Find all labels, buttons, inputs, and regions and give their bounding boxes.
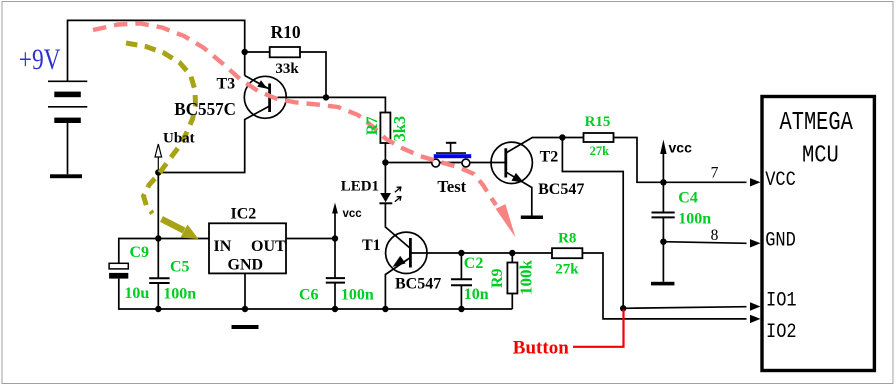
svg-text:C4: C4 — [678, 189, 698, 206]
junction C6 bottom rail — [332, 306, 338, 312]
svg-text:T2: T2 — [540, 149, 559, 166]
junction T1 base / C2 — [458, 250, 464, 256]
wire ground rail — [158, 308, 512, 310]
svg-text:IO1: IO1 — [766, 288, 797, 312]
label R8 — [558, 231, 576, 247]
node Ubat junction — [155, 169, 161, 175]
svg-text:vcc: vcc — [669, 139, 693, 155]
svg-text:3k3: 3k3 — [390, 116, 409, 142]
IC2 regulator box — [209, 223, 286, 273]
svg-text:BC547: BC547 — [395, 276, 441, 293]
junction IC2 GND rail — [242, 306, 248, 312]
svg-text:IC2: IC2 — [231, 206, 257, 223]
capacitor C2 — [451, 279, 472, 285]
svg-text:33k: 33k — [275, 61, 299, 77]
wire C4 ground stub — [662, 242, 664, 282]
wire LED1 anode lead — [384, 163, 386, 194]
wire T2 collector riser to IO1 — [562, 138, 746, 309]
label BC547 T1 — [395, 276, 441, 293]
wire vcc arrow stem at IC2 — [334, 207, 336, 239]
wire battery top to T3 emitter riser — [68, 20, 245, 81]
wire C9 bottom corner — [119, 279, 159, 309]
resistor R15 — [584, 133, 614, 142]
label 10u — [124, 285, 149, 302]
svg-text:BC557C: BC557C — [174, 99, 236, 120]
label T1 — [362, 237, 381, 254]
svg-text:R15: R15 — [585, 114, 611, 130]
wire T2 emitter — [506, 172, 532, 216]
label 27k R15 — [590, 144, 610, 158]
label IN — [214, 238, 232, 255]
junction C2 bottom rail — [458, 306, 464, 312]
label pin 8 — [711, 227, 719, 244]
label 10n — [464, 286, 489, 303]
LED1 light arrows — [395, 187, 401, 202]
MCU pin arrow GND — [750, 239, 761, 247]
label BC547 T2 — [538, 181, 584, 198]
wire R9 top lead — [511, 253, 513, 263]
label BC557C — [174, 99, 236, 120]
label C9 — [130, 244, 150, 261]
resistor R7 — [380, 113, 390, 144]
wire C4 top lead — [662, 182, 664, 212]
label vcc at C4 — [669, 139, 693, 155]
junction C5 bottom rail — [155, 306, 161, 312]
svg-text:8: 8 — [711, 227, 719, 244]
label 100n C6 — [341, 286, 374, 303]
capacitor C5 — [149, 278, 169, 283]
label T3 — [217, 75, 236, 92]
svg-text:C5: C5 — [170, 259, 190, 276]
wire T3 emitter diagonal — [245, 76, 270, 90]
svg-text:100n: 100n — [163, 286, 196, 303]
svg-text:ATMEGA: ATMEGA — [780, 108, 853, 137]
svg-text:R8: R8 — [558, 231, 576, 247]
LED1 diode — [379, 193, 392, 203]
label 3k3 rotated — [390, 116, 409, 142]
label LED1 — [341, 178, 379, 194]
wire T3 collector to Ubat node — [158, 106, 269, 173]
label R7 rotated — [364, 116, 381, 135]
MCU pin arrow IO2 — [750, 315, 761, 323]
label Button — [513, 337, 569, 358]
label R15 — [585, 114, 611, 130]
svg-text:T1: T1 — [362, 237, 381, 254]
svg-text:+9V: +9V — [19, 42, 61, 75]
wire IC2 IN — [158, 238, 209, 240]
label +9V — [19, 42, 61, 75]
junction T2 collector / R15 — [559, 134, 565, 140]
capacitor C4 — [652, 213, 675, 218]
dashed highlight pink arrow — [93, 24, 516, 238]
label 33k — [275, 61, 299, 77]
label IC2 — [231, 206, 257, 223]
resistor R8 — [552, 248, 582, 258]
svg-text:C2: C2 — [464, 255, 484, 272]
label vcc at IC2 — [343, 208, 363, 220]
label 100n C4 — [678, 211, 711, 228]
ground T2 — [521, 216, 543, 220]
junction R10 left / T3 emitter — [242, 49, 248, 55]
svg-text:Button: Button — [513, 337, 569, 358]
svg-text:OUT: OUT — [251, 238, 286, 255]
svg-text:BC547: BC547 — [538, 181, 584, 198]
capacitor C6 — [326, 278, 345, 283]
resistor R9 — [507, 263, 517, 294]
label Ubat — [163, 130, 195, 146]
svg-text:GND: GND — [765, 228, 796, 252]
wire C6 top lead — [334, 239, 336, 279]
junction T1 emitter rail — [382, 306, 388, 312]
label VCC pin — [765, 167, 796, 191]
node VCC junction IC2 OUT / C6 — [332, 235, 338, 241]
wire C2 bottom lead — [460, 285, 462, 309]
svg-text:100n: 100n — [341, 286, 374, 303]
wire Ubat node down to IN node — [157, 173, 159, 239]
wire C9 stub — [119, 239, 159, 264]
battery BAT +9V — [48, 81, 87, 123]
label pin 7 — [711, 164, 719, 181]
MCU pin arrow VCC — [750, 178, 761, 186]
label 27k R8 — [555, 261, 579, 277]
svg-text:7: 7 — [711, 164, 719, 181]
svg-text:100k: 100k — [516, 260, 535, 296]
wire C2 top lead — [460, 253, 462, 279]
wire R10 left — [245, 51, 270, 53]
wire IC2 GND stub — [244, 273, 246, 309]
ground battery — [50, 174, 82, 178]
label C6 — [299, 286, 319, 303]
label C2 — [464, 255, 484, 272]
svg-text:100n: 100n — [678, 211, 711, 228]
label R10 — [271, 22, 301, 42]
svg-text:10n: 10n — [464, 286, 489, 303]
ground IC2 — [232, 325, 259, 329]
label T2 — [540, 149, 559, 166]
transistor T1 BC547 — [386, 232, 427, 273]
label MCU — [802, 142, 839, 169]
wire C5 bottom lead — [157, 284, 159, 310]
wire C4 bottom lead — [662, 218, 664, 242]
svg-text:T3: T3 — [217, 75, 236, 92]
svg-text:R9: R9 — [489, 268, 506, 288]
label C4 — [678, 189, 698, 206]
MCU pin arrow IO1 — [750, 302, 761, 310]
svg-text:10u: 10u — [124, 285, 149, 302]
MCU box ATMEGA — [762, 97, 874, 371]
transistor T3 BC557C — [244, 76, 286, 118]
Ubat arrow — [155, 144, 162, 173]
wire T1 emitter — [385, 258, 410, 310]
junction R10 right / T3 base — [323, 94, 329, 100]
vcc arrow at C4 — [660, 140, 666, 155]
label GND pin — [765, 228, 796, 252]
wire R7 bottom — [384, 143, 386, 163]
label 100k rotated — [516, 260, 535, 296]
capacitor C9 electrolytic — [109, 263, 128, 278]
ground C4 — [651, 282, 674, 286]
wire GND pin — [663, 242, 746, 244]
wire vcc arrow stem at C4 — [662, 145, 664, 183]
dashed highlight olive arrow — [126, 43, 199, 239]
wire R15 right to VCC pin — [614, 138, 747, 183]
junction VCC pin / C4 top — [660, 179, 666, 185]
vcc arrow at IC2 out — [332, 203, 338, 214]
svg-text:MCU: MCU — [802, 142, 839, 169]
svg-text:vcc: vcc — [343, 208, 363, 220]
label IO1 pin — [766, 288, 797, 312]
svg-text:Test: Test — [437, 177, 466, 196]
label C5 — [170, 259, 190, 276]
wire IC2 OUT — [286, 238, 335, 240]
label IO2 pin — [766, 320, 797, 344]
wire R9 bottom lead — [511, 294, 513, 310]
svg-text:C9: C9 — [130, 244, 150, 261]
svg-text:IN: IN — [214, 238, 232, 255]
wire R15 left — [562, 137, 583, 139]
svg-text:C6: C6 — [299, 286, 319, 303]
svg-text:VCC: VCC — [765, 167, 796, 191]
switch S1 Test button — [432, 143, 471, 167]
label Test — [437, 177, 466, 196]
wire Test button node — [385, 162, 505, 164]
resistor R10 — [270, 47, 300, 57]
svg-text:R7: R7 — [364, 116, 381, 135]
junction R9 / R8 — [509, 250, 515, 256]
junction R7 / LED1 / Test — [382, 159, 388, 165]
svg-text:LED1: LED1 — [341, 178, 379, 194]
label 100n C5 — [163, 286, 196, 303]
wire R8 left — [512, 252, 552, 254]
wire T2 collector — [506, 138, 563, 154]
svg-text:GND: GND — [228, 256, 264, 273]
svg-text:27k: 27k — [590, 144, 610, 158]
label OUT — [251, 238, 286, 255]
wire R8 right to IO2 — [583, 253, 747, 319]
wire T1 base lead — [410, 252, 512, 254]
junction IC2 IN / C9 / C5 — [155, 235, 161, 241]
svg-text:Ubat: Ubat — [163, 130, 195, 146]
junction IO1 / button wire — [620, 305, 626, 311]
wire battery bottom — [67, 123, 69, 174]
wire LED1 cathode to T1 collector — [385, 204, 410, 249]
label GND IC2 — [228, 256, 264, 273]
label ATMEGA — [780, 108, 853, 137]
label R9 rotated — [489, 268, 506, 288]
svg-text:27k: 27k — [555, 261, 579, 277]
wire C6 bottom lead — [334, 283, 336, 309]
wire Button red — [573, 310, 624, 347]
wire C5 top lead — [157, 239, 159, 278]
svg-text:R10: R10 — [271, 22, 301, 42]
wire T3 base lead to R7 — [270, 97, 386, 112]
transistor T2 BC547 — [491, 142, 532, 183]
junction C4 bottom / GND pin — [660, 239, 666, 245]
svg-text:IO2: IO2 — [766, 320, 797, 344]
wire R10 right riser — [300, 52, 326, 97]
